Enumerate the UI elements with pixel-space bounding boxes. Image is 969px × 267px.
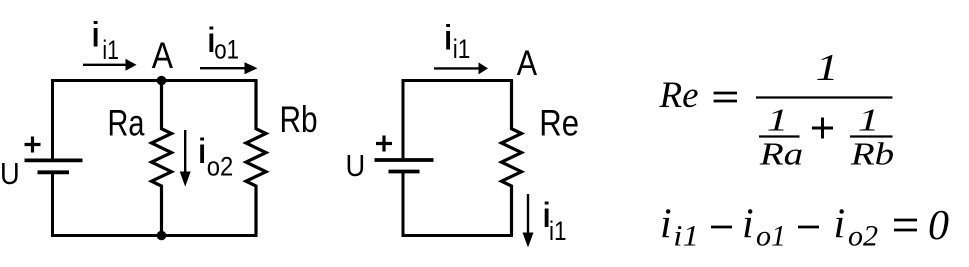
- svg-text:1: 1: [858, 103, 880, 138]
- current arrow i_o2 (through Ra): [184, 130, 186, 172]
- battery U2 positive plate: [375, 158, 434, 162]
- wire: circuit2 left lower (source - lead): [402, 172, 405, 238]
- svg-text:Rb: Rb: [280, 99, 318, 141]
- svg-text:Ra: Ra: [759, 136, 803, 172]
- svg-text:i: i: [443, 19, 453, 58]
- resistor R1 (Ra) middle branch with leads: [152, 81, 172, 236]
- svg-text:o1: o1: [214, 36, 239, 65]
- battery U2 negative plate: [389, 170, 420, 174]
- svg-text:1: 1: [767, 103, 789, 138]
- svg-text:0: 0: [928, 203, 949, 249]
- svg-text:i: i: [834, 202, 846, 248]
- resistor R2 (Rb) right branch with leads: [246, 81, 266, 236]
- wire: circuit2 left upper (source + lead): [402, 79, 405, 158]
- svg-text:o1: o1: [756, 220, 786, 253]
- svg-text:U: U: [0, 157, 20, 191]
- svg-text:i: i: [660, 202, 672, 248]
- svg-text:i: i: [742, 202, 754, 248]
- equation 1: fraction bar of 1/Rb: [850, 135, 893, 137]
- current arrow i_o1 (into Rb): [200, 67, 245, 69]
- wire: circuit1 bottom rail: [51, 234, 258, 237]
- svg-text:A: A: [517, 43, 537, 82]
- svg-text:U: U: [346, 149, 366, 183]
- svg-text:Re: Re: [539, 103, 579, 144]
- svg-text:1: 1: [816, 47, 839, 89]
- svg-text:i: i: [91, 16, 101, 55]
- wire: circuit1 left upper (source + lead): [51, 79, 54, 159]
- equation 2: second minus: [798, 226, 819, 229]
- wire: circuit1 top rail from source to node A to Rb: [51, 79, 258, 82]
- svg-text:i1: i1: [673, 219, 699, 252]
- plus polarity mark of U2: [376, 136, 392, 152]
- svg-text:A: A: [152, 35, 174, 77]
- equation 1: fraction bar of 1/Ra: [759, 135, 800, 137]
- svg-text:Rb: Rb: [850, 136, 894, 172]
- svg-text:i1: i1: [549, 217, 567, 246]
- current arrow i_i1 (circuit2 top): [434, 67, 479, 69]
- battery U1 positive plate: [25, 158, 83, 162]
- current arrow i_i1 (circuit2 bottom, downward): [527, 194, 529, 233]
- node A junction dot: [157, 76, 167, 86]
- equation 2: equals sign: [894, 220, 917, 230]
- wire: circuit1 left lower (source - lead): [51, 172, 54, 237]
- equation 1: plus sign: [812, 118, 833, 139]
- svg-text:i1: i1: [453, 35, 471, 64]
- wire: circuit2 bottom rail: [402, 234, 514, 237]
- resistor R3 (Re) right branch with leads: [502, 81, 522, 236]
- svg-text:Ra: Ra: [108, 103, 145, 144]
- svg-text:i1: i1: [102, 36, 118, 66]
- plus polarity mark of U1: [25, 137, 41, 153]
- svg-text:Re: Re: [659, 75, 699, 116]
- svg-text:i: i: [197, 132, 207, 171]
- svg-text:o2: o2: [848, 220, 878, 253]
- battery U1 negative plate: [38, 170, 70, 174]
- wire: circuit2 top rail: [402, 79, 514, 82]
- equation 1: main fraction bar: [756, 96, 893, 98]
- svg-text:o2: o2: [207, 152, 234, 181]
- current arrow i_i1 (circuit1 input): [83, 64, 126, 66]
- bottom junction dot (circuit1): [157, 231, 167, 241]
- equation 2: first minus: [711, 226, 732, 229]
